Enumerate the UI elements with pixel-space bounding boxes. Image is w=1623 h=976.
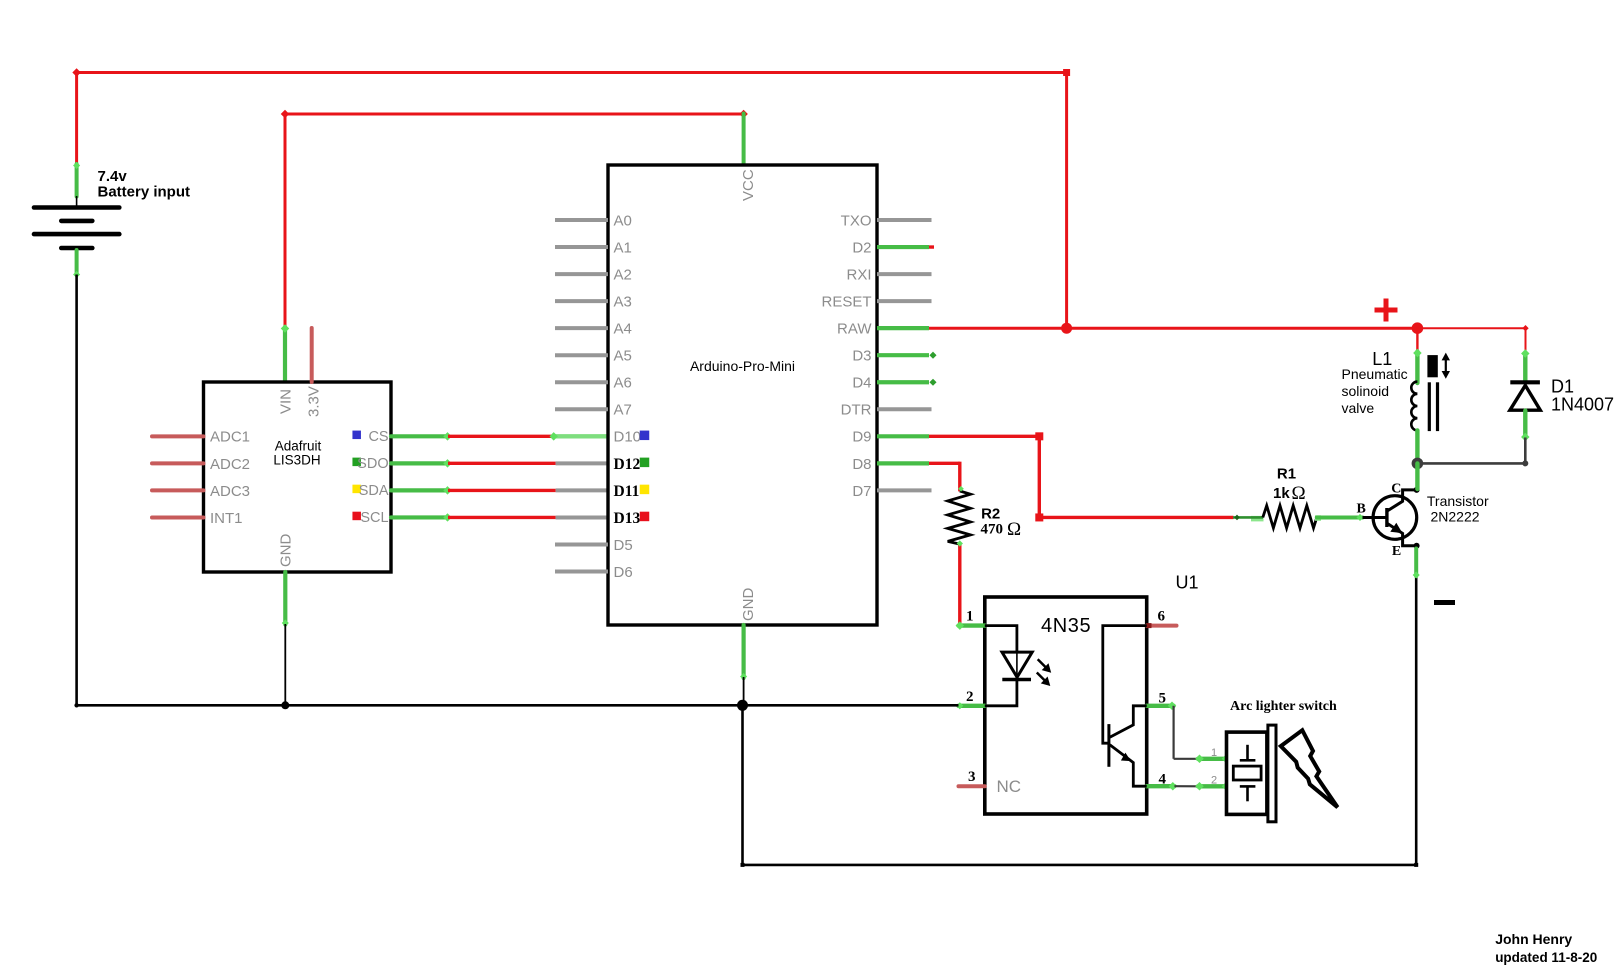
svg-text:D9: D9 [852,429,871,446]
LIS3DH pins ADC1 ADC2 ADC3 INT1 legs [152,436,204,517]
diode D1 triangle [1510,385,1540,410]
svg-text:A2: A2 [614,266,632,283]
U1 pin 5 green stub [1147,702,1177,710]
wires green LIS3DH legs rows CS SDO SDA SCL [391,432,452,522]
svg-text:D8: D8 [852,456,871,473]
svg-text:VIN: VIN [278,389,295,414]
U1 LED emission arrows [1037,659,1051,686]
label NC [997,777,1022,796]
svg-text:VCC: VCC [740,169,757,201]
wire green VIN leg [281,324,289,383]
arduino right pin labels [821,212,872,499]
battery B1 negative green leg [73,250,80,278]
wire green VCC leg [742,114,746,166]
diode D1 bottom green leg [1521,411,1529,442]
svg-text:3.3V: 3.3V [305,386,322,417]
wires red SPI rows to Arduino [448,436,556,517]
wire green emitter leg [1413,549,1420,579]
label Arc lighter switch [1230,699,1337,714]
junction red at top rail [1061,323,1072,334]
wire black emitter down [1415,548,1418,865]
LIS3DH pin label VIN [278,389,295,414]
transistor Q1 emitter arrow [1390,523,1402,533]
svg-text:D4: D4 [852,375,871,392]
wire dark D1 to valve junction [1417,438,1528,467]
label 4N35 [1041,615,1091,637]
wire pin5 to switch [1174,706,1199,759]
label plus symbol [1375,299,1398,322]
label E [1392,544,1401,559]
transistor Q1 collector path [1388,490,1417,511]
label Arduino-Pro-Mini [690,358,795,374]
label R1 1k [1273,466,1306,504]
arduino D2 red tip [929,245,934,248]
switch S1 crystal rect [1233,766,1261,780]
wire black ground down [741,705,745,867]
U1 phototransistor base bar [1107,724,1110,767]
svg-text:D7: D7 [852,483,871,500]
arduino module A1 Arduino-Pro-Mini body [608,165,877,625]
svg-text:CS: CS [368,429,388,445]
svg-text:2N2222: 2N2222 [1431,509,1480,525]
svg-text:A3: A3 [614,294,632,311]
arduino left gray pin stubs [555,220,608,572]
label minus symbol [1434,600,1455,605]
svg-text:C: C [1391,482,1401,497]
label C [1391,482,1401,497]
wire green collector leg [1415,463,1419,489]
resistor R1 right lead green [1315,514,1364,521]
U1 pin 1 green stub [956,621,985,629]
junction dark valve-diode-collector node [1412,458,1424,470]
svg-text:Transistor: Transistor [1427,493,1489,509]
junction red at L1 [1412,322,1424,334]
svg-text:RESET: RESET [821,294,871,311]
svg-text:RXI: RXI [846,266,871,283]
svg-text:DTR: DTR [841,402,872,419]
label Pneumatic solinoid valve [1342,366,1408,416]
transistor Q1 emitter path [1388,524,1417,546]
svg-text:ADC2: ADC2 [210,456,250,473]
U1 phototransistor emitter arrow [1121,753,1131,762]
svg-text:D10: D10 [614,429,642,446]
svg-text:7.4v: 7.4v [98,168,128,185]
transistor Q1 base bar [1385,508,1388,527]
junction ground at LIS3DH [281,701,289,709]
svg-text:valve: valve [1342,400,1375,416]
label L1 [1372,349,1392,369]
lightning bolt symbol [1281,730,1338,807]
svg-text:John Henry: John Henry [1495,931,1572,947]
svg-text:NC: NC [997,777,1022,796]
svg-text:470: 470 [981,522,1004,538]
svg-text:A6: A6 [614,375,632,392]
battery B1 positive red wire [75,71,78,165]
svg-text:Arduino-Pro-Mini: Arduino-Pro-Mini [690,358,795,374]
solenoid valve motion arrow [1442,353,1450,379]
junction ground at arduino [737,700,748,711]
wire red D9 vertical [1035,436,1043,521]
switch S1 body [1227,732,1267,814]
battery B1 positive green leg [73,162,80,206]
arduino left pin labels gray [614,212,642,581]
label B [1357,501,1366,516]
U1 phototransistor collector [1110,706,1147,738]
wire red D9 segment1 [929,432,1043,440]
arduino pin label VCC [740,169,757,201]
wire black ground bus [74,703,958,707]
diode D1 cathode bar [1510,380,1540,384]
wire red VIN rail drop to LIS3DH [284,114,287,328]
label U1 [1176,572,1199,592]
svg-text:D3: D3 [852,348,871,365]
svg-text:1: 1 [1211,747,1217,759]
transistor Q1 base wire [1363,516,1388,519]
wire red D8 segment [929,462,960,465]
arduino bold labels D12 D11 D13 [614,456,641,527]
svg-text:ADC1: ADC1 [210,429,250,446]
switch pin numbers gray [1211,747,1217,787]
svg-text:Ω: Ω [1292,483,1306,504]
wire red D8 down to R2 [958,462,961,492]
svg-text:D13: D13 [614,510,641,527]
resistor R1 left lead [1233,515,1263,521]
svg-text:updated 11-8-20: updated 11-8-20 [1495,950,1597,965]
arduino right gray pin stubs [877,220,932,490]
svg-text:U1: U1 [1176,572,1199,592]
svg-text:4N35: 4N35 [1041,615,1091,637]
U1 LED cathode bar [1002,678,1031,681]
wire red top rail drop to RAW node [1065,73,1068,329]
svg-text:Battery input: Battery input [98,184,191,201]
arduino D3 D4 leg tips [929,352,936,386]
wire red D1 drop [1525,328,1527,353]
svg-text:SCL: SCL [360,510,388,526]
svg-text:ADC3: ADC3 [210,483,250,500]
optocoupler U1 4N35 body [985,597,1147,814]
U1 phototransistor emitter [1110,745,1147,786]
U1 LED lead through triangle [1016,652,1018,679]
svg-text:solinoid: solinoid [1342,383,1389,399]
svg-text:GND: GND [278,534,295,568]
svg-text:D6: D6 [614,564,633,581]
svg-text:Pneumatic: Pneumatic [1342,366,1408,382]
svg-text:INT1: INT1 [210,510,243,527]
svg-text:A7: A7 [614,402,632,419]
svg-text:D2: D2 [852,239,871,256]
U1 LED wires [985,626,1017,706]
wire red R2 to U1 pin1 [957,486,964,626]
svg-text:RAW: RAW [837,321,872,338]
svg-text:D5: D5 [614,537,633,554]
svg-text:A1: A1 [614,239,632,256]
LIS3DH left pin labels [210,429,250,527]
LIS3DH right pin labels [357,429,389,526]
LIS3DH pin 3.3V leg [310,328,314,382]
svg-text:6: 6 [1158,609,1166,625]
battery B1 plates [34,208,119,249]
solenoid valve plunger rect [1427,355,1437,377]
wires gray stubs D12 D11 D13 [556,463,608,517]
resistor R2 zigzag [948,491,971,544]
U1 pin 6 salmon stub [1147,623,1177,628]
svg-text:1k: 1k [1273,485,1290,502]
svg-text:A0: A0 [614,212,632,229]
arduino right green pin stubs [877,247,929,463]
inductor L1 bottom green leg [1415,430,1419,463]
wire black bottom return [743,863,1419,867]
svg-text:GND: GND [740,588,757,622]
svg-text:A5: A5 [614,348,632,365]
svg-text:2: 2 [966,689,974,705]
svg-text:D12: D12 [614,456,641,473]
svg-text:Arc lighter switch: Arc lighter switch [1230,699,1337,714]
svg-text:R1: R1 [1277,466,1296,483]
svg-text:Adafruit: Adafruit [275,439,322,454]
wire red L1 drop [1416,328,1418,352]
U1 pin 3 salmon stub [959,784,985,788]
svg-text:Ω: Ω [1007,519,1021,540]
switch S1 electrode top [1240,745,1256,761]
svg-text:1N4007: 1N4007 [1551,395,1614,415]
LIS3DH pin label 3.3V [305,386,322,417]
wire black battery- down [75,275,78,706]
svg-text:R2: R2 [981,505,1000,522]
svg-text:5: 5 [1159,690,1167,706]
LIS3DH pin label GND [278,534,295,568]
svg-text:A4: A4 [614,321,632,338]
arduino GND leg [740,625,747,706]
inductor L1 core bars [1429,382,1437,431]
LIS3DH GND leg [282,572,289,705]
label John Henry updated [1495,931,1597,965]
U1 pin 4 green stub [1147,782,1177,790]
label Adafruit LIS3DH [273,439,321,468]
U1 pin numbers [966,609,1167,788]
U1 pin 2 green stub [956,702,985,709]
wire red RAW to plus rail [929,327,1417,330]
svg-text:SDO: SDO [357,456,388,472]
svg-text:3: 3 [968,769,976,785]
wire green switch pin2 stub [1195,782,1230,790]
svg-text:TXO: TXO [841,212,872,229]
wire green D10 stub [549,432,608,440]
accelerometer module U2 Adafruit LIS3DH body [204,382,392,572]
label Transistor 2N2222 [1427,493,1489,525]
LIS3DH color squares CS SDO SDA SCL [352,431,361,521]
svg-text:E: E [1392,544,1401,559]
switch S1 electrode bottom [1240,786,1256,801]
U1 LED triangle [1002,652,1032,677]
switch S1 side bar [1268,725,1276,822]
wire red D9 to R1 [1039,516,1233,519]
svg-text:SDA: SDA [359,483,389,499]
inductor L1 coil [1411,382,1417,431]
wire red battery+ to top rail [72,68,1070,76]
transistor Q1 collector dot [1414,487,1420,493]
U1 phototransistor base wire [1103,626,1147,744]
transistor Q1 emitter dot [1414,543,1420,549]
wire green switch pin1 stub [1195,755,1230,763]
svg-text:LIS3DH: LIS3DH [273,453,320,468]
arduino color squares [640,431,650,522]
wire pin4 to switch [1174,785,1199,787]
label 7.4v Battery input [98,168,191,201]
diode D1 lead through [1524,382,1526,410]
wire red rail to D1 [1417,325,1528,331]
label R2 470 [981,505,1022,540]
diode D1 top green leg [1521,349,1529,382]
arduino pin label GND bottom [740,588,757,622]
svg-text:4: 4 [1159,771,1167,787]
svg-text:2: 2 [1211,775,1217,787]
inductor L1 top green leg [1413,349,1421,383]
resistor R1 zigzag [1263,506,1317,528]
svg-text:1: 1 [966,609,974,625]
wire red VIN rail [281,110,748,118]
transistor Q1 circle [1373,496,1417,540]
svg-text:B: B [1357,501,1366,516]
svg-text:D11: D11 [614,483,640,500]
label D1 1N4007 [1551,377,1614,415]
